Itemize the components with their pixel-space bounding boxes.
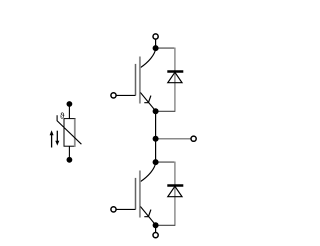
emitter arrow: [144, 96, 151, 103]
wire: collector curve: [140, 49, 155, 68]
thermistor R1 (NTC): [57, 106, 81, 158]
wire: diode branch: [156, 47, 175, 49]
diode triangle: [168, 72, 182, 82]
IGBT T1 with diode D1 (top): [111, 45, 183, 114]
gate terminal: [111, 93, 116, 98]
IGBT body bar: [139, 57, 141, 104]
wire: gate: [116, 94, 135, 96]
arrow up (current): [50, 130, 54, 147]
node: thermistor bottom terminal: [67, 157, 73, 163]
arrow down (current): [55, 131, 59, 146]
node: collector junction: [153, 45, 159, 51]
wire: emitter: [140, 93, 155, 111]
wire: emitter T2 to bottom terminal: [155, 225, 157, 232]
wire: top terminal to collector node: [155, 39, 157, 48]
node: midpoint junction: [153, 136, 159, 142]
wire: center rail emitter T1 to collector T2: [155, 111, 157, 162]
wire: phase output: [156, 138, 191, 140]
terminal 1 (bottom, emitter): [153, 233, 158, 238]
IGBT gate bar: [135, 64, 137, 96]
terminal 2 (phase output): [191, 136, 196, 141]
label theta: [60, 113, 64, 119]
IGBT T2 with diode D2 (bottom): [111, 159, 183, 228]
node: emitter junction: [153, 108, 159, 114]
diode cathode bar: [167, 70, 183, 72]
node: thermistor top terminal: [67, 101, 73, 107]
terminal 3 (top, collector): [153, 34, 158, 39]
